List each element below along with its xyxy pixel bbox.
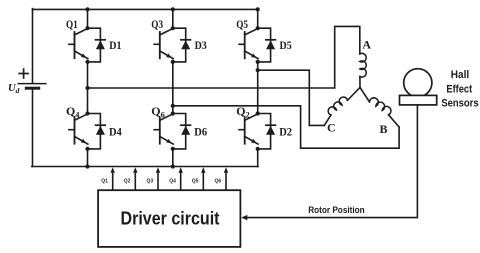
diode D1	[96, 40, 106, 50]
wire leg 2 collector stub from top rail	[172, 9, 174, 28]
node leg 2 top rail junction	[171, 7, 175, 11]
wire leg 3 mid vertical	[257, 62, 259, 114]
gate drive arrowhead g4	[179, 167, 183, 173]
node phase A tap on leg 1	[85, 86, 89, 90]
winding C (motor phase C coil)	[328, 97, 347, 115]
node leg 2 bottom rail junction	[171, 164, 175, 168]
wire battery positive lead	[32, 9, 34, 83]
svg-text:Q1: Q1	[66, 17, 78, 31]
svg-text:Driver circuit: Driver circuit	[121, 208, 220, 229]
diode D5	[266, 40, 276, 50]
driver circuit box	[98, 190, 240, 247]
node leg 2 top junction	[171, 26, 175, 30]
wire winding A to star point	[359, 77, 361, 88]
hall sensor rotor circle	[404, 69, 432, 97]
transistor Q4	[69, 114, 88, 144]
diode D3	[181, 40, 191, 50]
svg-text:C: C	[327, 120, 336, 134]
node leg 1 emitter junction	[85, 60, 89, 64]
wire leg 1 collector stub from top rail	[87, 9, 89, 28]
node leg 1 top junction	[85, 26, 89, 30]
node leg 3 top junction	[256, 26, 260, 30]
winding A (motor phase A coil)	[360, 53, 366, 77]
battery Ud positive plate	[18, 83, 46, 85]
node leg 1 top rail junction	[85, 7, 89, 11]
node leg 2 emitter junction	[171, 60, 175, 64]
wire phase C to motor winding C	[258, 70, 325, 125]
svg-text:Sensors: Sensors	[441, 98, 478, 110]
svg-text:Q6: Q6	[215, 178, 222, 184]
wire gate drive g6	[225, 172, 227, 190]
gate drive arrowhead g3	[156, 167, 160, 173]
svg-text:Effect: Effect	[446, 83, 472, 95]
node leg 3 emitter junction	[256, 60, 260, 64]
wire leg 1 to bottom rail	[87, 149, 89, 167]
svg-text:Q4: Q4	[169, 178, 176, 184]
node phase B tap on leg 2	[171, 104, 175, 108]
wire leg 1 mid vertical	[87, 62, 89, 114]
svg-text:Hall: Hall	[451, 69, 469, 81]
gate drive arrowhead g5	[201, 167, 205, 173]
transistor Q6	[154, 114, 173, 144]
wire diode D2 branch	[258, 114, 271, 149]
svg-text:Q5: Q5	[192, 178, 199, 184]
transistor Q1	[69, 28, 88, 58]
svg-text:B: B	[380, 122, 388, 136]
wire gate drive g4	[180, 172, 182, 190]
wire top DC rail	[33, 8, 258, 10]
wire leg 3 collector stub from top rail	[257, 9, 259, 28]
label Hall Effect Sensors	[441, 69, 478, 109]
node leg 1 bottom rail junction	[85, 164, 89, 168]
svg-text:A: A	[362, 37, 371, 51]
wire winding B lower lead	[389, 115, 400, 127]
node phase C tap on leg 3	[256, 68, 260, 72]
transistor Q3	[154, 28, 173, 58]
svg-text:Q2: Q2	[124, 178, 131, 184]
svg-text:D2: D2	[279, 125, 292, 139]
node leg 1 lower collector junction	[85, 111, 89, 115]
wire diode D4 branch	[88, 114, 101, 149]
svg-text:D5: D5	[280, 38, 292, 52]
wire star point to winding B	[360, 88, 370, 102]
wire phase A to motor winding A	[88, 26, 360, 88]
wire gate drive g3	[157, 172, 159, 190]
transistor Q2	[239, 114, 258, 144]
wire winding C lower lead	[324, 115, 331, 125]
svg-text:D4: D4	[109, 125, 122, 139]
svg-text:Rotor Position: Rotor Position	[308, 205, 365, 215]
diode D6	[181, 125, 191, 135]
wire bottom DC rail	[32, 166, 258, 168]
svg-text:Q1: Q1	[101, 178, 108, 184]
wire gate drive g1	[112, 172, 114, 190]
node leg 2 lower emitter junction	[171, 147, 175, 151]
svg-text:Q3: Q3	[147, 178, 154, 184]
gate drive arrowhead g6	[224, 167, 228, 173]
svg-text:D6: D6	[194, 125, 207, 139]
wire leg 3 to bottom rail	[257, 149, 259, 167]
winding B (motor phase B coil)	[370, 98, 391, 115]
svg-text:D1: D1	[109, 38, 121, 52]
wire gate drive g5	[202, 172, 204, 190]
svg-text:Q3: Q3	[151, 17, 163, 31]
svg-text:D3: D3	[195, 38, 207, 52]
node leg 2 lower collector junction	[171, 111, 175, 115]
wire star point to winding C	[348, 88, 361, 101]
wire gate drive g2	[134, 172, 136, 190]
node leg 1 lower emitter junction	[85, 147, 89, 151]
gate drive arrowhead g2	[133, 167, 137, 173]
wire hall sensor to rotor position feedback	[245, 105, 418, 218]
diode D4	[96, 125, 106, 135]
feedback arrowhead into driver circuit	[241, 215, 247, 220]
gate drive arrowhead g1	[111, 167, 115, 173]
wire battery negative lead	[32, 89, 34, 167]
node leg 3 lower emitter junction	[256, 147, 260, 151]
hall sensor base plate	[400, 95, 437, 105]
transistor Q5	[239, 28, 258, 58]
wire diode D6 branch	[173, 114, 186, 149]
node leg 3 lower collector junction	[256, 111, 260, 115]
wire leg 2 mid vertical	[172, 62, 174, 114]
wire diode D5 branch	[258, 28, 271, 62]
battery plus sign	[19, 73, 28, 75]
wire diode D1 branch	[88, 28, 101, 62]
svg-text:Q5: Q5	[236, 17, 248, 31]
wire diode D3 branch	[173, 28, 186, 62]
node leg 3 top rail junction	[256, 7, 260, 11]
wire phase B to motor winding B	[173, 106, 399, 148]
diode D2	[266, 125, 276, 135]
battery Ud negative plate	[26, 87, 38, 90]
wire leg 2 to bottom rail	[172, 149, 174, 167]
